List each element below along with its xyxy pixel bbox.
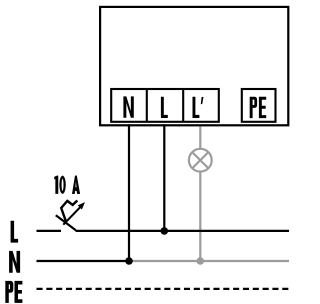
label 10 A <box>54 176 79 194</box>
PE line dashed <box>37 288 290 290</box>
label PE (line) <box>6 281 23 302</box>
L line left stub <box>37 230 62 232</box>
terminal label L' <box>193 97 200 118</box>
terminal PE box <box>242 89 276 122</box>
terminal label PE <box>250 97 267 118</box>
terminal label N <box>123 96 133 117</box>
device box U1 <box>100 7 288 125</box>
N line gray right part <box>129 260 289 262</box>
breaker F1 lever <box>56 215 76 230</box>
L line main <box>76 230 290 232</box>
breaker F1 arrow shaft <box>63 207 80 225</box>
terminal label L <box>161 97 168 118</box>
breaker F1 arrow head <box>78 202 85 209</box>
node L'/N gray junction <box>197 257 205 265</box>
wire L' gray upper <box>199 126 201 148</box>
wire L' gray lower <box>199 172 201 261</box>
node N junction <box>125 257 133 265</box>
terminal block N L L' <box>111 89 219 122</box>
lamp E1 <box>189 149 212 172</box>
wire N vertical <box>128 124 130 261</box>
terminal divider N/L <box>146 89 148 122</box>
node L junction <box>161 227 169 235</box>
label N (line) <box>9 251 19 272</box>
terminal divider L/L' <box>182 89 184 122</box>
breaker F1 S-hook <box>61 201 77 223</box>
N line black left part <box>37 260 130 262</box>
wire L vertical <box>163 124 165 231</box>
label L (line) <box>11 221 18 242</box>
